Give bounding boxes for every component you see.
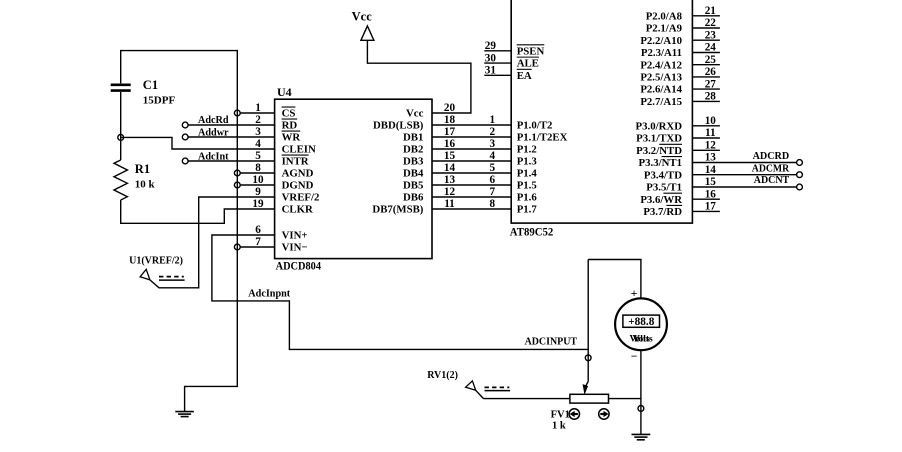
svg-text:11: 11 (705, 127, 716, 139)
svg-text:P2.0/A8: P2.0/A8 (646, 10, 683, 22)
svg-text:8: 8 (255, 162, 261, 174)
svg-text:CLEIN: CLEIN (282, 144, 316, 156)
svg-text:30: 30 (485, 53, 497, 65)
svg-text:22: 22 (705, 17, 717, 29)
svg-text:Addwr: Addwr (198, 128, 229, 139)
svg-text:DB6: DB6 (403, 192, 424, 204)
svg-text:7: 7 (490, 186, 496, 198)
svg-text:1: 1 (255, 102, 261, 114)
svg-text:16: 16 (444, 138, 456, 150)
svg-text:DB3: DB3 (403, 156, 424, 168)
svg-text:5: 5 (255, 150, 261, 162)
svg-text:ADCMR: ADCMR (752, 164, 790, 175)
svg-text:DB5: DB5 (403, 180, 423, 192)
svg-text:3: 3 (255, 126, 261, 138)
svg-text:DB7(MSB): DB7(MSB) (372, 204, 423, 216)
svg-text:P3.0/RXD: P3.0/RXD (636, 120, 683, 132)
svg-text:4: 4 (490, 150, 496, 162)
svg-text:9: 9 (255, 186, 261, 198)
svg-text:P1.7: P1.7 (517, 204, 538, 216)
svg-text:11: 11 (444, 198, 455, 210)
svg-text:6: 6 (255, 224, 261, 236)
svg-text:P2.4/A12: P2.4/A12 (640, 59, 682, 71)
svg-text:4: 4 (255, 138, 261, 150)
svg-text:P2.6/A14: P2.6/A14 (640, 84, 682, 96)
svg-text:P1.5: P1.5 (517, 180, 537, 192)
svg-text:19: 19 (252, 198, 264, 210)
svg-text:P2.7/A15: P2.7/A15 (640, 96, 682, 108)
svg-text:1: 1 (490, 114, 496, 126)
svg-text:C1: C1 (143, 78, 158, 92)
svg-text:15: 15 (705, 176, 717, 188)
svg-text:ADCINPUT: ADCINPUT (525, 336, 578, 347)
svg-text:RV1(2): RV1(2) (427, 370, 458, 381)
svg-text:CLKR: CLKR (282, 204, 313, 216)
svg-text:INTR: INTR (282, 156, 309, 168)
svg-text:DBD(LSB): DBD(LSB) (373, 120, 424, 132)
svg-text:P3.2/NTD: P3.2/NTD (636, 145, 682, 157)
svg-text:Vcc: Vcc (352, 9, 373, 23)
svg-text:DB2: DB2 (403, 144, 423, 156)
svg-text:26: 26 (705, 66, 717, 78)
svg-text:DGND: DGND (282, 180, 314, 192)
svg-text:16: 16 (705, 188, 717, 200)
svg-text:28: 28 (705, 91, 717, 103)
svg-text:P1.1/T2EX: P1.1/T2EX (517, 132, 568, 144)
svg-text:AdcRd: AdcRd (198, 115, 229, 126)
svg-text:DB4: DB4 (403, 168, 424, 180)
svg-text:2: 2 (490, 126, 496, 138)
svg-text:AdcInt: AdcInt (198, 152, 229, 163)
svg-text:ADCD804: ADCD804 (276, 260, 322, 272)
svg-text:P1.3: P1.3 (517, 156, 538, 168)
svg-text:PSEN: PSEN (517, 45, 545, 57)
svg-text:AdcInpnt: AdcInpnt (248, 289, 291, 300)
svg-text:23: 23 (705, 29, 717, 41)
svg-text:P1.0/T2: P1.0/T2 (517, 120, 553, 132)
svg-text:5: 5 (490, 162, 496, 174)
svg-text:ADCNT: ADCNT (754, 175, 790, 186)
svg-text:12: 12 (705, 140, 717, 152)
svg-text:l/: l/ (634, 334, 640, 344)
svg-text:WR: WR (282, 132, 301, 144)
svg-text:P1.6: P1.6 (517, 192, 538, 204)
svg-text:13: 13 (444, 174, 456, 186)
svg-text:10: 10 (705, 115, 717, 127)
svg-text:25: 25 (705, 54, 717, 66)
svg-text:1 k: 1 k (552, 421, 566, 432)
svg-text:2: 2 (255, 114, 261, 126)
svg-text:7: 7 (255, 236, 261, 248)
svg-text:14: 14 (705, 164, 717, 176)
svg-text:31: 31 (485, 65, 497, 77)
svg-text:10 k: 10 k (135, 179, 156, 191)
svg-text:DB1: DB1 (403, 132, 423, 144)
svg-text:15DPF: 15DPF (143, 95, 176, 107)
svg-text:VREF/2: VREF/2 (282, 192, 320, 204)
svg-text:P3.4/TD: P3.4/TD (644, 169, 682, 181)
svg-text:29: 29 (485, 40, 497, 52)
svg-text:CS: CS (282, 108, 296, 120)
svg-text:P2.1/A9: P2.1/A9 (646, 23, 683, 35)
svg-text:RD: RD (282, 120, 298, 132)
svg-text:ALE: ALE (517, 58, 539, 70)
svg-text:P2.2/A10: P2.2/A10 (640, 35, 682, 47)
svg-text:27: 27 (705, 78, 717, 90)
svg-text:18: 18 (444, 114, 456, 126)
svg-text:P3.3/NT1: P3.3/NT1 (639, 157, 683, 169)
svg-text:P3.6/WR: P3.6/WR (640, 194, 682, 206)
svg-text:P2.3/A11: P2.3/A11 (641, 47, 682, 59)
svg-text:VIN+: VIN+ (282, 230, 308, 242)
svg-text:3: 3 (490, 138, 496, 150)
svg-text:13: 13 (705, 152, 717, 164)
svg-text:14: 14 (444, 162, 456, 174)
svg-text:−: − (631, 351, 638, 363)
svg-text:P3.5/T1: P3.5/T1 (646, 182, 682, 194)
svg-text:AT89C52: AT89C52 (510, 226, 554, 238)
svg-text:EA: EA (517, 70, 532, 82)
svg-text:FV1: FV1 (551, 410, 570, 421)
svg-text:VIN−: VIN− (282, 242, 308, 254)
svg-text:21: 21 (705, 5, 717, 17)
svg-text:6: 6 (490, 174, 496, 186)
svg-text:P1.2: P1.2 (517, 144, 537, 156)
svg-text:+: + (631, 288, 638, 300)
svg-text:U1(VREF/2): U1(VREF/2) (129, 256, 183, 267)
svg-text:20: 20 (444, 102, 456, 114)
svg-text:P1.4: P1.4 (517, 168, 538, 180)
svg-text:P2.5/A13: P2.5/A13 (640, 72, 682, 84)
svg-text:AGND: AGND (282, 168, 314, 180)
svg-text:+88.8: +88.8 (628, 316, 655, 328)
svg-text:ADCRD: ADCRD (753, 151, 790, 162)
svg-text:8: 8 (490, 198, 496, 210)
svg-text:U4: U4 (277, 85, 292, 99)
svg-text:12: 12 (444, 186, 456, 198)
svg-text:17: 17 (705, 201, 717, 213)
svg-text:15: 15 (444, 150, 456, 162)
svg-text:P3.1/TXD: P3.1/TXD (636, 133, 682, 145)
svg-text:R1: R1 (135, 162, 150, 176)
svg-text:17: 17 (444, 126, 456, 138)
svg-text:24: 24 (705, 42, 717, 54)
svg-text:Vcc: Vcc (406, 108, 424, 120)
svg-text:P3.7/RD: P3.7/RD (643, 206, 682, 218)
svg-text:10: 10 (252, 174, 264, 186)
